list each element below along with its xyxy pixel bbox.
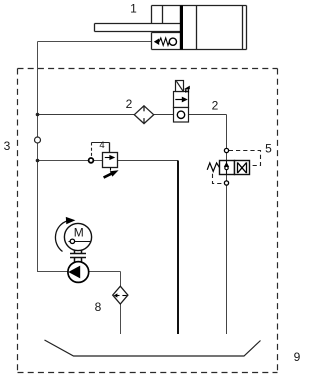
wire: valve 5 bottom to node <box>226 175 228 181</box>
wire: suction down to filter 8 <box>120 272 122 287</box>
wire: branch to regulator 4 <box>38 160 103 162</box>
regulator 4 internal arrow <box>105 157 111 159</box>
svg-text:9: 9 <box>294 350 301 364</box>
regulator 4 pilot bracket <box>92 142 110 144</box>
wire: return line to tank (thick) <box>177 161 179 335</box>
wire: node to valve 5 top <box>226 153 228 161</box>
wire: down to valve 5 <box>226 115 228 149</box>
enclosure dashed box 9 <box>18 69 278 373</box>
filter 8 diamond <box>113 286 128 304</box>
valve 2 actuator mark <box>184 86 190 90</box>
valve 5 pilot dashed lower <box>213 174 223 184</box>
coupling <box>70 250 86 262</box>
svg-text:2: 2 <box>126 97 133 111</box>
svg-text:4: 4 <box>99 140 104 151</box>
svg-text:8: 8 <box>95 300 102 314</box>
cylinder 1 <box>95 6 247 50</box>
pump circle <box>68 262 89 283</box>
cylinder 1 cushion circle <box>169 38 176 45</box>
node: valve 5 upper circle <box>224 148 228 152</box>
svg-text:2: 2 <box>212 99 219 113</box>
node: test point circle <box>35 137 41 143</box>
motor small circle <box>70 239 74 243</box>
filter 8 arrow <box>116 295 120 297</box>
motor rotation arc <box>55 221 67 252</box>
valve 2 flow arrow <box>175 99 183 101</box>
node: junction at filter branch <box>36 113 40 117</box>
node: junction at regulator branch <box>36 159 40 163</box>
svg-text:3: 3 <box>4 139 11 153</box>
wire: valve 2 to right corner <box>189 114 227 116</box>
wire: regulator 4 outlet <box>118 160 179 162</box>
cylinder 1 piston (thick bar) <box>180 6 183 50</box>
wire: branch to filter 2 <box>38 114 136 116</box>
wire: pump outlet <box>37 271 68 273</box>
regulator 4 adjust arrow <box>110 168 112 171</box>
valve 5 left position flow arrow <box>226 161 228 175</box>
regulator 4 pilot dashed <box>91 143 93 158</box>
svg-text:M: M <box>74 226 84 240</box>
valve 2 stack <box>174 81 189 123</box>
tank <box>45 340 261 356</box>
node: valve 5 lower circle <box>224 181 228 185</box>
svg-text:1: 1 <box>130 2 137 16</box>
valve 5 body <box>220 161 250 175</box>
motor M circle <box>64 223 91 250</box>
regulator 4 pilot node circle <box>89 158 94 163</box>
wire: filter 2 to valve 2 <box>154 114 174 116</box>
valve 5 right position blocked <box>238 162 247 173</box>
wire: filter 8 to tank <box>120 304 122 334</box>
motor underline <box>69 241 91 243</box>
valve 5 spring <box>207 163 219 172</box>
wire: valve 5 down to tank <box>226 185 228 334</box>
wire: main supply vertical <box>37 42 39 272</box>
pump flow triangle <box>68 266 80 279</box>
regulator 4 box <box>103 153 118 168</box>
cylinder 1 cushion arrow <box>154 38 159 45</box>
cylinder 1 cushion spring <box>159 38 169 46</box>
wire: pump suction <box>89 271 121 273</box>
valve 5 pilot dashed upper <box>229 151 261 166</box>
svg-text:5: 5 <box>265 142 272 156</box>
valve 2 port circle <box>177 111 184 118</box>
filter 2 diamond <box>134 106 153 124</box>
wire: cylinder port line <box>38 41 152 43</box>
